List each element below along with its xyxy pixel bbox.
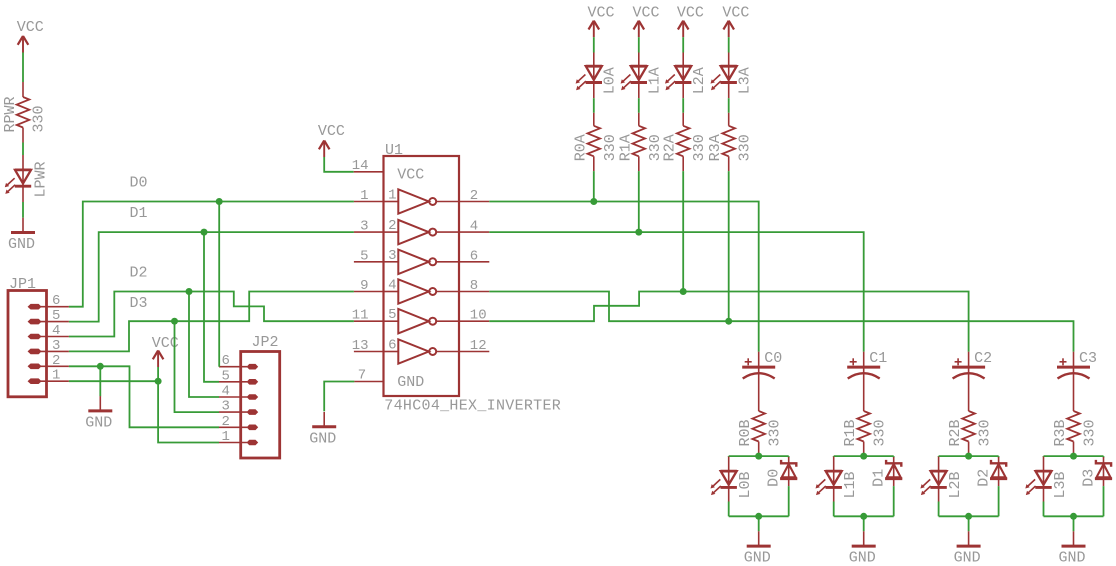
label JP1 — [9, 276, 36, 293]
power symbol VCC (top-left) — [18, 36, 29, 53]
ground symbol (group 3) — [1062, 531, 1086, 546]
svg-text:VCC: VCC — [588, 5, 615, 22]
wire L1A to R1A — [638, 98, 640, 113]
power symbol VCC (middle) — [153, 351, 164, 368]
wire R2B to L2B/D2 — [939, 456, 999, 457]
svg-text:C1: C1 — [869, 350, 887, 367]
label GND (inside U1) — [397, 374, 424, 391]
svg-text:14: 14 — [352, 158, 369, 174]
svg-text:C3: C3 — [1079, 350, 1097, 367]
wire R1B to L1B/D1 — [834, 456, 894, 457]
wire net pin8 (to L3A/C3) — [489, 292, 1073, 352]
label JP2 — [252, 334, 279, 351]
svg-text:R3A: R3A — [707, 134, 724, 161]
wire D3 leg — [1103, 486, 1105, 516]
U1 pin 9 — [354, 278, 384, 294]
JP2 pin 5 — [219, 368, 258, 384]
ground symbol (top-left) — [11, 218, 35, 233]
svg-text:GND: GND — [8, 236, 35, 253]
svg-text:VCC: VCC — [633, 5, 660, 22]
value 330 (R3B) — [1082, 419, 1099, 446]
value 330 (R3A) — [737, 134, 754, 161]
svg-text:R1B: R1B — [842, 419, 859, 446]
svg-text:1: 1 — [222, 429, 230, 445]
svg-text:6: 6 — [470, 248, 478, 264]
resistor R1A 330 — [633, 113, 646, 171]
wire L1B leg — [833, 502, 835, 517]
label D2 — [976, 469, 993, 487]
svg-text:8: 8 — [470, 278, 478, 294]
junction GND (group 2) — [965, 513, 972, 520]
ground symbol (U1) — [312, 412, 336, 427]
JP2 pin 1 — [219, 429, 258, 445]
U1 pin 3 — [354, 219, 384, 235]
wire net D1 (JP1-5 to U1 pin3) — [69, 232, 354, 322]
wire D2 leg — [998, 486, 1000, 516]
label R2A — [662, 134, 679, 161]
wire net pin10 (to L2A/C2) — [489, 292, 968, 352]
wire R0B to L0B/D0 — [729, 456, 789, 457]
IC U1 body — [384, 156, 460, 396]
svg-text:4: 4 — [222, 384, 230, 400]
label D3 — [1081, 469, 1098, 487]
label GND (group 2) — [954, 550, 981, 566]
junction pin10/L2A — [680, 288, 687, 295]
svg-text:3: 3 — [222, 399, 230, 415]
U1 pin 14 — [352, 158, 384, 174]
label C0 — [764, 350, 782, 367]
wire bottom rail (group 3) — [1044, 515, 1104, 517]
LED L0A — [576, 53, 602, 99]
svg-text:D2: D2 — [130, 265, 148, 282]
wire net D3 (JP1-3 to U1 pin9) — [69, 292, 354, 352]
ground symbol (below JP1 pin2) — [88, 366, 112, 411]
capacitor C3 — [1057, 352, 1090, 411]
wire VCC to L1A — [638, 37, 640, 52]
label C3 — [1079, 350, 1097, 367]
U1 pin 7 — [354, 368, 383, 384]
label GND (group 3) — [1059, 550, 1086, 566]
svg-text:9: 9 — [360, 278, 368, 294]
svg-text:10: 10 — [470, 308, 487, 324]
label LPWR — [33, 161, 50, 197]
U1 pin 12 — [459, 338, 489, 354]
wire D1 leg — [893, 486, 895, 516]
svg-text:4: 4 — [470, 219, 478, 235]
wire net pin2 (to L0A/C0) — [489, 202, 758, 352]
svg-text:U1: U1 — [385, 142, 403, 159]
label D0 — [766, 469, 783, 487]
wire VCC to L3A — [728, 37, 730, 52]
junction D2 — [186, 288, 193, 295]
svg-text:D3: D3 — [130, 295, 148, 312]
net label D1 — [130, 205, 148, 222]
junction GND (group 0) — [755, 513, 762, 520]
diode D2 (zener) — [990, 457, 1007, 486]
value 330 (RPWR) — [31, 105, 48, 132]
label RPWR — [2, 96, 19, 132]
power net label VCC (col L0A) — [588, 5, 615, 22]
label L3B — [1052, 471, 1069, 498]
svg-text:3: 3 — [360, 219, 368, 235]
value 74HC04_HEX_INVERTER — [384, 398, 561, 415]
resistor R3A 330 — [722, 113, 735, 171]
wire R3A down to net — [728, 171, 730, 321]
wire U1 pin7 to GND — [324, 382, 354, 412]
wire L0A to R0A — [593, 98, 595, 113]
label GND (group 1) — [849, 550, 876, 566]
svg-text:330: 330 — [872, 419, 889, 446]
power net label VCC (middle) — [152, 335, 179, 352]
label R1A — [617, 134, 634, 161]
label R3B — [1052, 419, 1069, 446]
power net label VCC (top-left) — [17, 19, 44, 36]
svg-text:L0A: L0A — [602, 67, 619, 94]
svg-text:13: 13 — [352, 338, 369, 354]
svg-text:L3B: L3B — [1052, 471, 1069, 498]
label GND (top-left) — [8, 236, 35, 253]
power net label VCC (col L3A) — [722, 5, 749, 22]
net label D2 — [130, 265, 148, 282]
LED L0B — [711, 457, 737, 502]
LED L2A — [665, 53, 691, 99]
svg-text:VCC: VCC — [677, 5, 704, 22]
svg-text:GND: GND — [744, 550, 771, 566]
wire VCC to U1 pin14 — [324, 157, 354, 172]
JP1 pin 4 — [28, 323, 69, 339]
LED L1B — [816, 457, 842, 502]
JP1 pin 2 — [28, 353, 69, 369]
svg-text:JP2: JP2 — [252, 334, 279, 351]
svg-text:330: 330 — [602, 134, 619, 161]
value 330 (R1A) — [647, 134, 664, 161]
junction D0 — [216, 198, 223, 205]
value 330 (R1B) — [872, 419, 889, 446]
svg-text:L0B: L0B — [737, 471, 754, 498]
power symbol VCC (col L3A) — [723, 21, 734, 38]
wire bottom rail (group 2) — [939, 515, 999, 517]
ground symbol (group 0) — [747, 531, 771, 546]
JP2 pin 4 — [219, 384, 258, 400]
svg-text:5: 5 — [222, 368, 230, 384]
svg-text:330: 330 — [1082, 419, 1099, 446]
svg-text:C2: C2 — [974, 350, 992, 367]
svg-text:GND: GND — [397, 374, 424, 391]
junction R1B out — [860, 453, 867, 460]
ground symbol (group 1) — [852, 531, 876, 546]
label C1 — [869, 350, 887, 367]
svg-text:GND: GND — [1059, 550, 1086, 566]
net label D3 — [130, 295, 148, 312]
svg-text:1: 1 — [360, 188, 368, 204]
resistor R1B 330 — [857, 411, 870, 456]
wire RPWR to LPWR — [22, 143, 24, 156]
LED L3B — [1025, 457, 1051, 502]
wire VCC to L2A — [682, 37, 684, 52]
label R3A — [707, 134, 724, 161]
label C2 — [974, 350, 992, 367]
power symbol VCC (col L2A) — [678, 21, 689, 38]
wire D0 leg — [788, 486, 790, 516]
svg-text:11: 11 — [352, 308, 369, 324]
resistor R3B 330 — [1067, 411, 1080, 456]
label L1A — [647, 67, 664, 94]
inverter gate 4 (U1) — [385, 278, 460, 304]
ground symbol (group 2) — [957, 531, 981, 546]
wire to GND (group 3) — [1073, 516, 1075, 531]
connector JP1 body — [8, 291, 47, 397]
svg-text:D0: D0 — [766, 469, 783, 487]
resistor R0B 330 — [752, 411, 765, 456]
svg-text:2: 2 — [52, 353, 60, 369]
junction R0B out — [755, 453, 762, 460]
diode D1 (zener) — [885, 457, 902, 486]
svg-text:4: 4 — [52, 323, 60, 339]
label L3A — [737, 67, 754, 94]
wire net GND (JP1-2 to JP2-2) — [69, 366, 219, 427]
wire net pin4 (to L1A/C1) — [489, 232, 863, 352]
svg-text:R2B: R2B — [947, 419, 964, 446]
svg-text:VCC: VCC — [397, 167, 424, 184]
svg-text:C0: C0 — [764, 350, 782, 367]
inverter gate 3 (U1) — [385, 248, 460, 274]
svg-text:6: 6 — [222, 353, 230, 369]
wire L2B leg — [938, 502, 940, 517]
svg-text:12: 12 — [470, 338, 487, 354]
svg-text:R2A: R2A — [662, 134, 679, 161]
wire net D1 branch to JP2-5 — [204, 232, 219, 382]
svg-text:5: 5 — [360, 248, 368, 264]
wire VCC to L0A — [593, 37, 595, 52]
svg-text:L2A: L2A — [691, 67, 708, 94]
wire to GND (group 1) — [863, 516, 865, 531]
svg-text:L2B: L2B — [947, 471, 964, 498]
svg-text:VCC: VCC — [722, 5, 749, 22]
power symbol VCC (col L0A) — [589, 21, 600, 38]
power net label VCC (col L1A) — [633, 5, 660, 22]
LED L2B — [920, 457, 946, 502]
junction D3 — [171, 318, 178, 325]
U1 pin 5 — [354, 248, 384, 264]
svg-text:330: 330 — [691, 134, 708, 161]
svg-text:330: 330 — [767, 419, 784, 446]
U1 pin 13 — [352, 338, 384, 354]
net label D0 — [130, 174, 148, 191]
junction R2B out — [965, 453, 972, 460]
power symbol VCC (col L1A) — [634, 21, 645, 38]
label GND (below JP1) — [85, 415, 112, 432]
junction pin2/L0A — [590, 198, 597, 205]
resistor R2A 330 — [677, 113, 690, 171]
LED L1A — [621, 53, 647, 99]
capacitor C1 — [847, 352, 880, 411]
JP1 pin 6 — [28, 293, 69, 309]
svg-text:D0: D0 — [130, 174, 148, 191]
value 330 (R0A) — [602, 134, 619, 161]
wire net D2 branch to JP2-4 — [189, 292, 219, 398]
svg-text:GND: GND — [849, 550, 876, 566]
svg-text:330: 330 — [977, 419, 994, 446]
JP2 pin 6 — [219, 353, 258, 369]
svg-text:R1A: R1A — [617, 134, 634, 161]
resistor R2B 330 — [962, 411, 975, 456]
U1 pin 6 — [459, 248, 489, 264]
label L2B — [947, 471, 964, 498]
svg-text:6: 6 — [52, 293, 60, 309]
label GND (U1) — [309, 430, 336, 447]
svg-text:GND: GND — [85, 415, 112, 432]
JP2 pin 3 — [219, 399, 258, 415]
svg-text:D1: D1 — [130, 205, 148, 222]
svg-text:330: 330 — [31, 105, 48, 132]
JP2 pin 2 — [219, 414, 258, 430]
resistor R0A 330 — [588, 113, 601, 171]
wire net VCC (JP1-1/JP2-1) — [69, 367, 219, 443]
power net label VCC (U1 pin14) — [318, 123, 345, 140]
junction VCC net — [155, 378, 162, 385]
wire L2A to R2A — [682, 98, 684, 113]
wire R0A down to net — [593, 171, 595, 201]
label L2A — [691, 67, 708, 94]
junction GND (group 3) — [1070, 513, 1077, 520]
svg-text:330: 330 — [737, 134, 754, 161]
LED LPWR — [5, 155, 31, 202]
power symbol VCC (U1 pin14) — [319, 141, 330, 158]
wire net D0 (JP1-6 to U1 pin1) — [69, 202, 354, 307]
wire bottom rail (group 0) — [729, 515, 789, 517]
label R0A — [572, 134, 589, 161]
label VCC (inside U1) — [397, 167, 424, 184]
connector JP2 body — [241, 352, 280, 459]
svg-text:2: 2 — [470, 188, 478, 204]
wire net D2 (JP1-4 to U1 pin11) — [69, 292, 354, 337]
label L0A — [602, 67, 619, 94]
svg-text:LPWR: LPWR — [33, 161, 50, 197]
U1 pin 8 — [459, 278, 489, 294]
capacitor C2 — [952, 352, 985, 411]
U1 pin 2 — [459, 188, 489, 204]
wire net D3 branch to JP2-3 — [175, 321, 220, 412]
junction D1 — [201, 229, 208, 236]
wire L0B leg — [728, 502, 730, 517]
diode D0 (zener) — [780, 457, 797, 486]
label D1 — [871, 469, 888, 487]
svg-text:D1: D1 — [871, 469, 888, 487]
label L1B — [842, 471, 859, 498]
U1 pin 4 — [459, 219, 489, 235]
svg-text:VCC: VCC — [318, 123, 345, 140]
label R1B — [842, 419, 859, 446]
JP1 pin 1 — [28, 368, 69, 384]
label U1 — [385, 142, 403, 159]
wire to GND (group 0) — [758, 516, 760, 531]
svg-text:D3: D3 — [1081, 469, 1098, 487]
junction GND net — [97, 363, 104, 370]
svg-text:D2: D2 — [976, 469, 993, 487]
value 330 (R2B) — [977, 419, 994, 446]
U1 pin 1 — [354, 188, 384, 204]
U1 pin 10 — [459, 308, 489, 324]
svg-text:GND: GND — [309, 430, 336, 447]
svg-text:74HC04_HEX_INVERTER: 74HC04_HEX_INVERTER — [384, 398, 561, 415]
inverter gate 6 (U1) — [385, 338, 460, 364]
value 330 (R0B) — [767, 419, 784, 446]
svg-text:L3A: L3A — [737, 67, 754, 94]
wire R2A down to net — [682, 171, 684, 291]
junction pin4/L1A — [635, 229, 642, 236]
svg-text:2: 2 — [222, 414, 230, 430]
label GND (group 0) — [744, 550, 771, 566]
wire R1A down to net — [638, 171, 640, 232]
wire R3B to L3B/D3 — [1044, 456, 1104, 457]
junction R3B out — [1070, 453, 1077, 460]
wire net D0 branch to JP2-6 — [218, 202, 220, 367]
svg-text:5: 5 — [52, 308, 60, 324]
JP1 pin 3 — [28, 338, 69, 354]
label L0B — [737, 471, 754, 498]
label R2B — [947, 419, 964, 446]
svg-text:RPWR: RPWR — [2, 96, 19, 132]
svg-text:GND: GND — [954, 550, 981, 566]
svg-text:VCC: VCC — [17, 19, 44, 36]
resistor RPWR 330 — [17, 82, 30, 143]
wire VCC to RPWR — [22, 53, 24, 83]
svg-text:L1B: L1B — [842, 471, 859, 498]
wire L3A to R3A — [728, 98, 730, 113]
value 330 (R2A) — [691, 134, 708, 161]
wire L3B leg — [1043, 502, 1045, 517]
wire LPWR to GND — [22, 202, 24, 218]
svg-text:L1A: L1A — [647, 67, 664, 94]
capacitor C0 — [742, 352, 775, 411]
power net label VCC (col L2A) — [677, 5, 704, 22]
junction GND (group 1) — [860, 513, 867, 520]
svg-text:1: 1 — [52, 368, 60, 384]
svg-text:3: 3 — [52, 338, 60, 354]
inverter gate 1 (U1) — [385, 188, 460, 214]
inverter gate 2 (U1) — [385, 218, 460, 244]
svg-text:R0B: R0B — [737, 419, 754, 446]
diode D3 (zener) — [1095, 457, 1112, 486]
inverter gate 5 (U1) — [385, 307, 460, 333]
label R0B — [737, 419, 754, 446]
U1 pin 11 — [352, 308, 384, 324]
junction pin8/L3A — [725, 318, 732, 325]
wire bottom rail (group 1) — [834, 515, 894, 517]
LED L3A — [711, 53, 737, 99]
JP1 pin 5 — [28, 308, 69, 324]
svg-text:R0A: R0A — [572, 134, 589, 161]
svg-text:R3B: R3B — [1052, 419, 1069, 446]
svg-text:7: 7 — [358, 368, 366, 384]
wire to GND (group 2) — [968, 516, 970, 531]
